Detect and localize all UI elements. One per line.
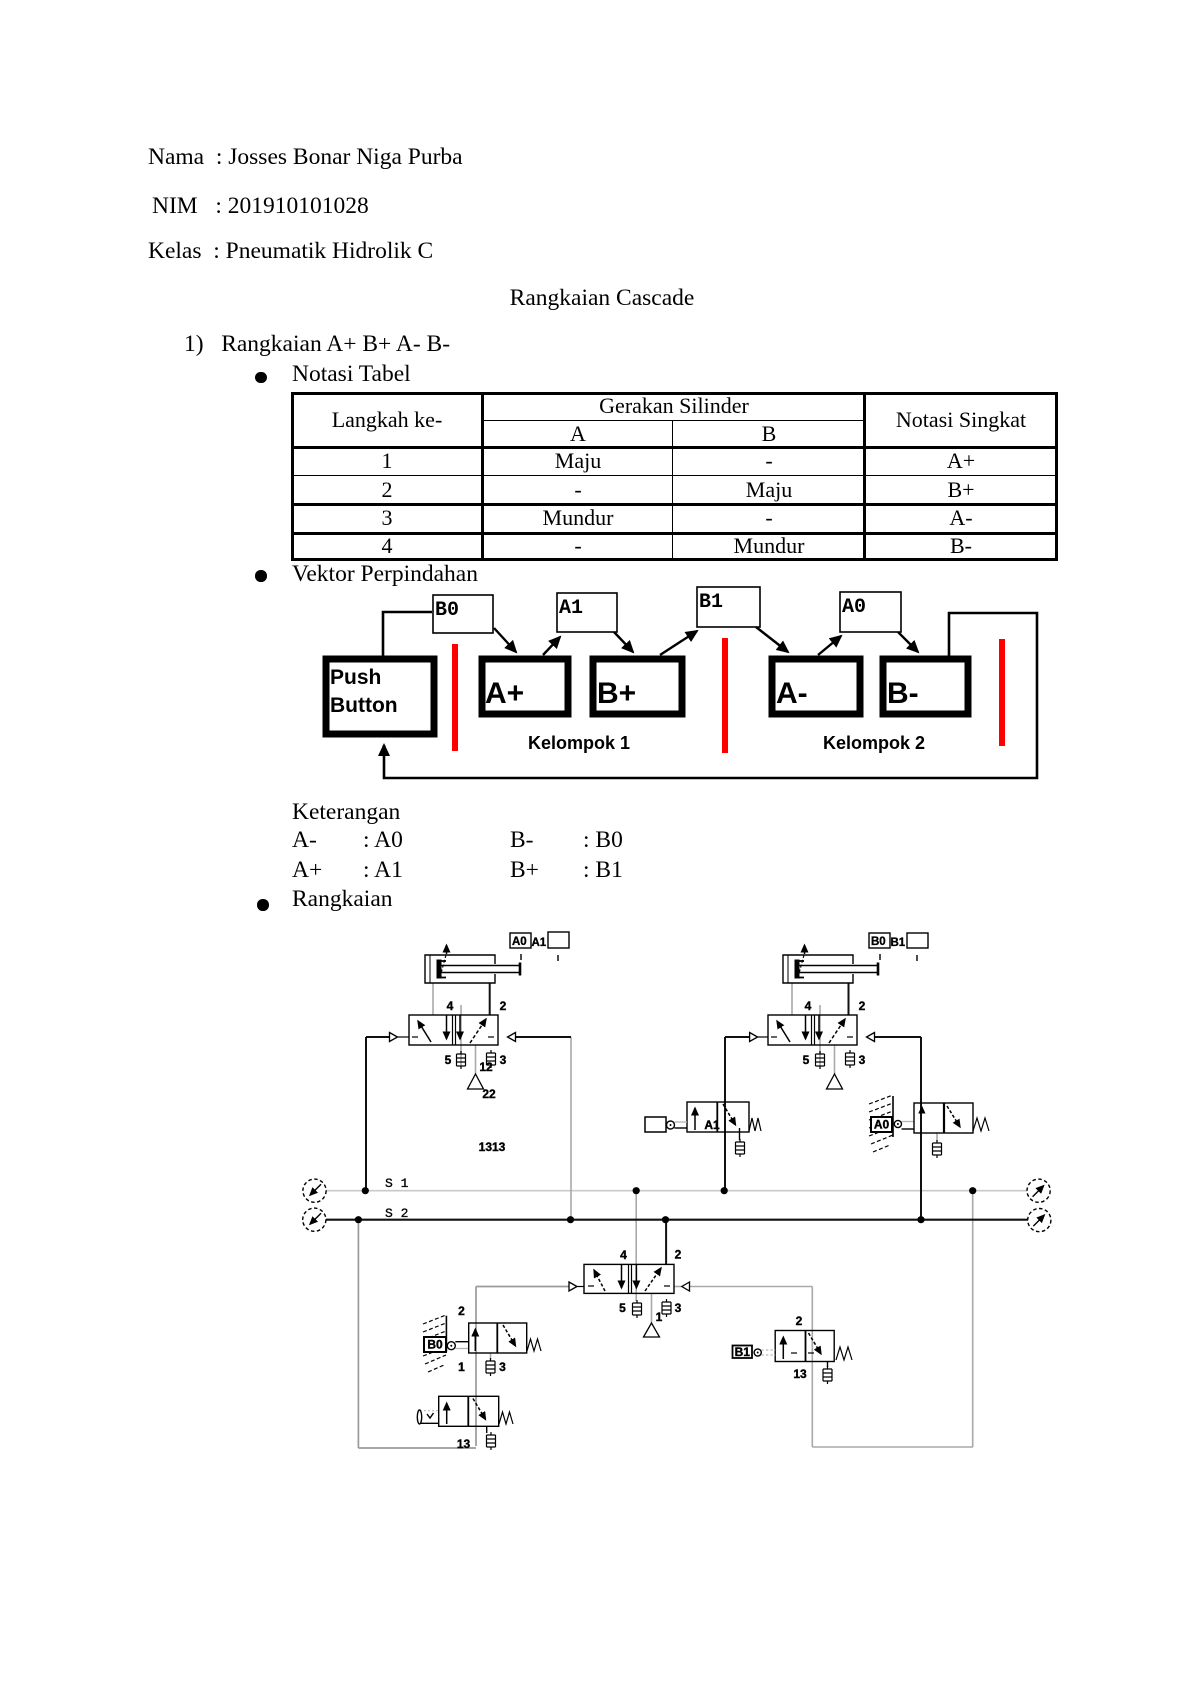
svg-text:A+: A+ <box>485 677 524 710</box>
svg-text:12: 12 <box>479 1060 493 1074</box>
svg-text:1: 1 <box>656 1310 663 1324</box>
svg-text:A1: A1 <box>704 1118 720 1132</box>
svg-text:B1: B1 <box>699 591 723 614</box>
svg-text:A0: A0 <box>874 1118 890 1132</box>
svg-text:4: 4 <box>805 999 812 1013</box>
svg-text:3: 3 <box>499 1360 506 1374</box>
svg-text:1: 1 <box>458 1360 465 1374</box>
svg-text:13: 13 <box>793 1367 807 1381</box>
svg-text:S 1: S 1 <box>385 1176 409 1191</box>
svg-text:B1: B1 <box>891 937 906 949</box>
svg-text:Kelompok 2: Kelompok 2 <box>823 733 925 753</box>
svg-text:4: 4 <box>620 1248 627 1262</box>
svg-text:3: 3 <box>859 1053 866 1067</box>
svg-text:B0: B0 <box>435 599 459 622</box>
svg-text:A1: A1 <box>559 597 583 620</box>
svg-text:3: 3 <box>675 1301 682 1315</box>
svg-text:B+: B+ <box>597 677 636 710</box>
svg-text:A0: A0 <box>512 936 527 948</box>
svg-text:2: 2 <box>859 999 866 1013</box>
svg-text:B-: B- <box>887 677 919 710</box>
svg-text:A-: A- <box>776 677 808 710</box>
svg-text:4: 4 <box>447 999 454 1013</box>
svg-text:A0: A0 <box>842 596 866 619</box>
svg-text:Button: Button <box>330 694 398 717</box>
svg-text:1313: 1313 <box>479 1140 506 1154</box>
svg-text:13: 13 <box>457 1437 471 1451</box>
svg-text:B1: B1 <box>735 1345 751 1359</box>
svg-text:2: 2 <box>796 1314 803 1328</box>
svg-text:Kelompok 1: Kelompok 1 <box>528 733 630 753</box>
svg-text:A1: A1 <box>532 937 547 949</box>
svg-text:5: 5 <box>619 1301 626 1315</box>
svg-text:2: 2 <box>458 1304 465 1318</box>
svg-text:B0: B0 <box>871 936 886 948</box>
svg-text:Push: Push <box>330 666 381 689</box>
svg-text:22: 22 <box>482 1087 496 1101</box>
svg-text:5: 5 <box>803 1053 810 1067</box>
svg-text:B0: B0 <box>427 1338 443 1352</box>
svg-text:2: 2 <box>500 999 507 1013</box>
svg-text:S 2: S 2 <box>385 1206 408 1221</box>
svg-text:5: 5 <box>445 1053 452 1067</box>
svg-text:3: 3 <box>500 1053 507 1067</box>
svg-text:2: 2 <box>675 1248 682 1262</box>
